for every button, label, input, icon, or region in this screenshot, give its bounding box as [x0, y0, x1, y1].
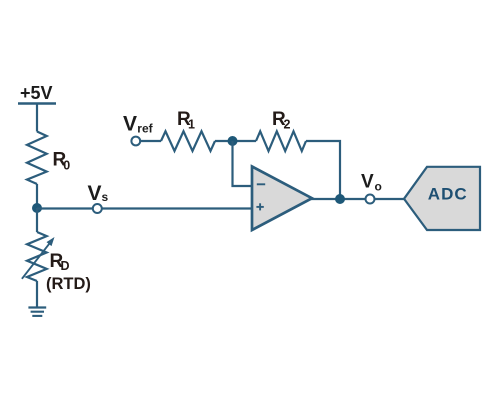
- resistor R0: [27, 132, 47, 185]
- wire R2 to output node (feedback): [306, 141, 340, 199]
- svg-text:+5V: +5V: [20, 83, 53, 103]
- label R2: [272, 109, 291, 132]
- wire R0 to node A: [36, 184, 38, 208]
- svg-text:ref: ref: [137, 122, 153, 136]
- svg-text:o: o: [375, 180, 382, 194]
- label Vref: [123, 113, 154, 136]
- label Vs: [88, 182, 109, 205]
- +5V power rail bar: [18, 102, 56, 104]
- wire R1 to node B: [215, 140, 256, 142]
- node A junction dot: [32, 203, 42, 213]
- resistor R2: [256, 131, 306, 151]
- ADC block: [404, 167, 480, 230]
- wire Vref to R1: [140, 140, 161, 142]
- op-amp U1: [252, 167, 312, 231]
- svg-text:2: 2: [284, 118, 291, 132]
- resistor RD (RTD, variable): [22, 232, 55, 281]
- label Vo: [361, 172, 382, 194]
- label R0: [53, 150, 71, 173]
- resistor R1: [161, 131, 215, 151]
- svg-text:V: V: [88, 182, 102, 205]
- wire node B to op-amp minus input: [233, 141, 253, 186]
- svg-text:ADC: ADC: [428, 185, 468, 204]
- terminal Vs (open circle): [93, 204, 102, 213]
- node C junction dot (output): [335, 194, 345, 204]
- wire op-amp output to ADC: [311, 198, 404, 200]
- svg-text:D: D: [61, 259, 70, 273]
- ground: [28, 308, 46, 316]
- node B junction dot: [228, 136, 238, 146]
- label RD: [50, 251, 70, 273]
- label R1: [177, 109, 195, 132]
- svg-text:(RTD): (RTD): [46, 275, 91, 293]
- terminal Vo (open circle): [366, 195, 375, 204]
- wire node A down to RD: [36, 208, 38, 232]
- wire +5V rail to R0: [36, 104, 38, 132]
- svg-text:V: V: [361, 172, 374, 193]
- wire node A to op-amp + input: [37, 207, 252, 209]
- svg-text:0: 0: [63, 158, 70, 172]
- svg-text:V: V: [123, 113, 137, 136]
- svg-text:s: s: [102, 190, 109, 204]
- wire RD to ground: [36, 281, 38, 308]
- terminal Vref (open circle): [131, 137, 140, 146]
- svg-text:1: 1: [188, 118, 195, 132]
